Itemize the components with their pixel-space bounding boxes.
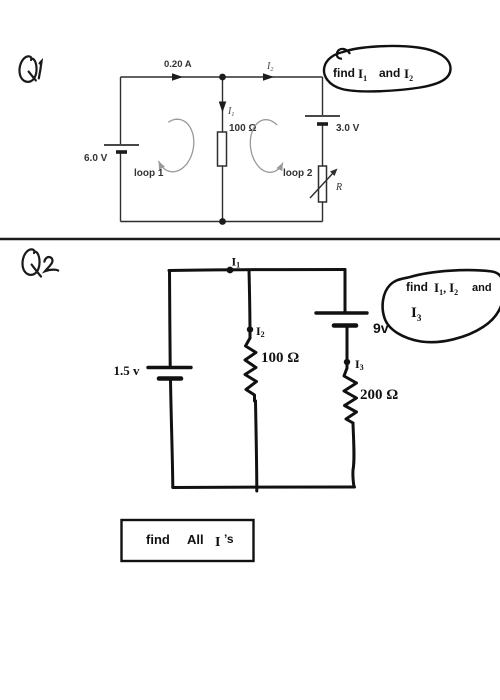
junction node I3 (344, 359, 350, 365)
svg-text:’s: ’s (224, 532, 234, 546)
resistor 100 ohm (zigzag) (245, 338, 257, 401)
resistor 200 ohm (zigzag) (344, 368, 357, 423)
junction node I2 (247, 326, 253, 332)
svg-text:I2: I2 (266, 61, 273, 73)
battery V2 3.0 V (305, 116, 340, 124)
loop 1 arrow (clockwise) (159, 119, 194, 172)
wire right branch upper (344, 270, 347, 313)
wire middle branch lower (256, 401, 257, 491)
junction node I1 (227, 267, 234, 274)
annotation bubble: find I1, I2 and I3 (383, 270, 500, 342)
svg-text:find: find (333, 66, 355, 80)
wire right branch lower (353, 423, 354, 487)
svg-text:200 Ω: 200 Ω (360, 387, 398, 403)
svg-text:I1: I1 (227, 106, 234, 118)
svg-text:R: R (335, 182, 342, 193)
svg-text:and: and (472, 282, 492, 294)
svg-text:loop 1: loop 1 (134, 168, 164, 179)
annotation bubble: find I1 and I2 (324, 46, 451, 91)
handwritten: find All I's (146, 532, 234, 550)
variable resistor R (310, 166, 338, 202)
svg-text:All: All (187, 532, 204, 547)
svg-text:6.0 V: 6.0 V (84, 153, 108, 164)
svg-text:0.20 A: 0.20 A (164, 59, 192, 70)
svg-text:I1: I1 (232, 255, 241, 270)
wire bottom (173, 486, 355, 490)
label Q1 (handwritten) (19, 56, 41, 81)
wire middle branch (222, 77, 224, 222)
wire bottom (121, 221, 323, 223)
answer box: find All I's (122, 520, 254, 561)
wire right branch middle (346, 326, 349, 368)
svg-text:loop 2: loop 2 (283, 168, 313, 179)
wire left branch lower (171, 380, 173, 488)
handwritten: find I1 and I2 (333, 66, 413, 83)
label Q2 (handwritten) (22, 249, 58, 276)
battery V3 1.5 v (148, 368, 191, 379)
svg-text:I: I (215, 535, 220, 550)
loop 2 arrow (counterclockwise) (250, 120, 283, 173)
svg-text:find: find (146, 532, 170, 547)
svg-text:find: find (406, 280, 428, 294)
battery V1 6.0 V (104, 145, 139, 152)
current arrow I1 on middle branch (219, 102, 227, 113)
junction node top (219, 74, 226, 81)
svg-text:and: and (379, 66, 400, 80)
svg-text:I3: I3 (355, 357, 364, 372)
junction node bottom (219, 218, 226, 225)
wire top (hand-drawn) (169, 270, 345, 271)
svg-text:1.5 v: 1.5 v (114, 363, 141, 378)
wire top (node A to node B) (121, 76, 323, 78)
handwritten: find I1, I2 and I3 (406, 280, 492, 323)
wire left branch upper (168, 271, 172, 367)
wire right branch upper (322, 77, 324, 115)
svg-text:I2: I2 (256, 324, 265, 339)
svg-text:3.0 V: 3.0 V (336, 123, 360, 134)
battery V4 9v (316, 313, 367, 326)
svg-text:100 Ω: 100 Ω (261, 350, 299, 366)
wire left branch upper (120, 77, 122, 144)
current arrow 0.20 A on top wire (172, 73, 183, 81)
wire right branch lower (322, 202, 324, 222)
wire right branch middle (322, 125, 324, 166)
wire left branch lower (120, 153, 122, 222)
current arrow I2 on top wire (263, 73, 274, 81)
wire middle branch upper (249, 270, 250, 338)
resistor 100 ohm (middle branch) (218, 132, 227, 166)
